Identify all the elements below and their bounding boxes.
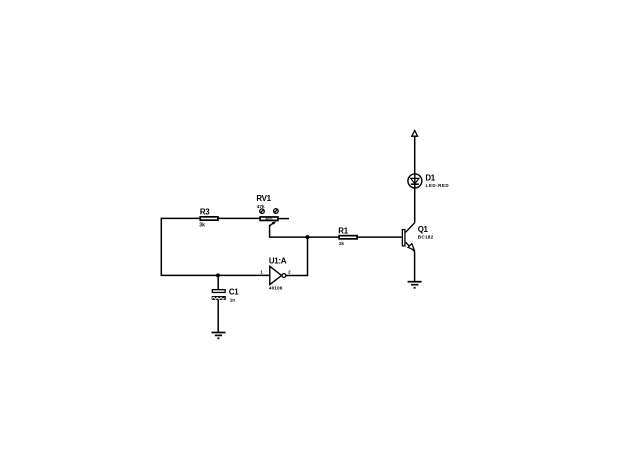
wire: R1 to Q1 base	[357, 236, 402, 238]
potentiometer RV1	[256, 194, 278, 226]
svg-text:LED-RED: LED-RED	[426, 183, 450, 188]
wire: LED to power arrow	[414, 137, 416, 174]
wire: C1 to ground	[217, 300, 219, 332]
power arrow (VCC)	[412, 130, 418, 136]
resistor R1	[338, 226, 357, 246]
wire: left vertical feedback wire	[160, 218, 162, 276]
wire: collector up to LED	[414, 188, 416, 222]
junction: mid rail node	[306, 235, 310, 239]
wire: mid rail junction to R1	[308, 236, 340, 238]
capacitor C1	[212, 275, 240, 302]
svg-text:1n: 1n	[230, 297, 236, 302]
op-amp U1:A inverter 40106	[260, 257, 291, 291]
wire: RV1 wiper drop to mid rail	[269, 225, 271, 237]
svg-text:Q1: Q1	[418, 225, 429, 234]
svg-text:R3: R3	[200, 208, 210, 217]
svg-text:46%: 46%	[265, 217, 273, 221]
wire: top rail between R3 and RV1	[218, 217, 260, 219]
wire: inverter output to feedback vertical	[286, 275, 308, 277]
svg-text:R1: R1	[338, 226, 348, 235]
RV1 wiper arrow	[270, 223, 274, 226]
ground (under Q1)	[408, 282, 422, 288]
junction: C1 tap on bottom rail	[216, 273, 220, 277]
svg-text:U1:A: U1:A	[269, 257, 287, 266]
svg-text:C1: C1	[229, 287, 239, 296]
ground (under C1)	[212, 333, 226, 339]
svg-text:40106: 40106	[269, 286, 283, 291]
wire: feedback vertical from junction to inverter output	[307, 236, 309, 275]
svg-text:BC182: BC182	[418, 235, 434, 240]
RV1 adjust button up	[274, 209, 279, 214]
svg-text:1k: 1k	[339, 241, 345, 246]
resistor R3	[199, 208, 218, 229]
svg-text:3k: 3k	[199, 223, 205, 229]
wire: top rail left segment (left vertical to R3)	[161, 217, 200, 219]
wire: mid rail wiper to junction	[269, 236, 308, 238]
RV1 adjust button down	[260, 209, 265, 214]
wire: RV1 right stub	[279, 218, 290, 220]
svg-text:D1: D1	[425, 174, 435, 183]
transistor Q1 BC182	[402, 223, 433, 252]
wire: emitter down to ground	[414, 252, 416, 282]
LED D1	[408, 174, 449, 188]
svg-text:47k: 47k	[257, 204, 265, 209]
svg-text:RV1: RV1	[256, 194, 271, 203]
wire: bottom rail to inverter input	[161, 274, 270, 276]
